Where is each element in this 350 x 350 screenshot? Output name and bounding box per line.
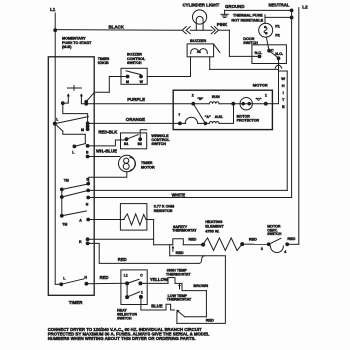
svg-text:L1: L1 xyxy=(124,274,128,278)
wire neutral horizontal xyxy=(86,196,90,200)
svg-text:THERMOSTAT: THERMOSTAT xyxy=(167,298,192,302)
svg-text:I: I xyxy=(283,90,284,95)
svg-text:C: C xyxy=(140,274,143,278)
wire L1 vertical xyxy=(54,13,56,284)
wire hop xyxy=(185,117,197,123)
svg-text:BUZZER: BUZZER xyxy=(127,53,142,57)
svg-text:AUX.: AUX. xyxy=(215,115,224,119)
svg-text:SWITCH: SWITCH xyxy=(267,232,282,236)
svg-text:“A”: “A” xyxy=(205,115,211,119)
svg-text:GROUND: GROUND xyxy=(225,4,245,9)
svg-text:H: H xyxy=(84,275,87,279)
svg-text:3.77 K OHM: 3.77 K OHM xyxy=(154,205,175,209)
svg-text:1: 1 xyxy=(141,290,143,294)
svg-text:RED: RED xyxy=(118,257,127,262)
svg-text:THERMOSTAT: THERMOSTAT xyxy=(172,229,197,233)
svg-text:BLUE: BLUE xyxy=(151,303,163,308)
svg-text:HEAT: HEAT xyxy=(117,308,128,312)
svg-text:SWITCH: SWITCH xyxy=(127,61,142,65)
svg-text:NOT RESETABLE: NOT RESETABLE xyxy=(231,19,263,23)
svg-text:PUSH TO START: PUSH TO START xyxy=(62,41,92,45)
svg-text:M: M xyxy=(126,80,129,84)
timer cam TM-A xyxy=(61,197,63,216)
svg-text:4: 4 xyxy=(284,250,286,254)
svg-text:PURPLE: PURPLE xyxy=(127,97,145,102)
motor protector xyxy=(240,98,252,110)
wire red from timer R xyxy=(88,243,199,263)
svg-text:YELLOW: YELLOW xyxy=(150,277,168,282)
svg-text:SWITCH: SWITCH xyxy=(117,317,132,321)
svg-text:L: L xyxy=(72,150,75,154)
svg-text:H: H xyxy=(282,83,285,88)
connector grommet xyxy=(275,65,278,68)
svg-text:N: N xyxy=(86,203,89,207)
connector chevrons left xyxy=(182,27,186,34)
wire buzzer left to buzzer control switch xyxy=(190,57,192,77)
wire timer motor to timer B xyxy=(89,172,127,184)
svg-text:3: 3 xyxy=(261,247,263,251)
svg-text:1: 1 xyxy=(265,94,267,98)
svg-text:WH.-BLUE: WH.-BLUE xyxy=(96,148,117,153)
svg-text:THERMAL FUSE: THERMAL FUSE xyxy=(233,13,263,17)
wire white branch xyxy=(279,70,288,72)
svg-text:TIMER: TIMER xyxy=(69,300,83,305)
wire L2 vertical xyxy=(298,8,300,245)
svg-text:BLACK: BLACK xyxy=(109,25,125,30)
svg-text:RESISTOR: RESISTOR xyxy=(154,209,173,213)
svg-text:KNOB: KNOB xyxy=(98,61,109,65)
svg-text:4750 W.: 4750 W. xyxy=(205,228,219,233)
svg-text:BROWN: BROWN xyxy=(193,284,208,288)
svg-text:PINK: PINK xyxy=(217,22,228,27)
low temp arrow xyxy=(178,311,185,317)
svg-text:SELECTOR: SELECTOR xyxy=(117,313,137,317)
svg-text:L: L xyxy=(56,118,59,122)
svg-text:2: 2 xyxy=(192,94,194,98)
wire timer A to resistor xyxy=(88,219,124,221)
wire under cylinder light xyxy=(190,29,212,31)
junction safety node xyxy=(169,245,171,256)
svg-text:R: R xyxy=(79,240,82,244)
svg-text:T: T xyxy=(282,97,285,102)
svg-text:HEATING: HEATING xyxy=(205,219,222,224)
svg-text:MOTOR: MOTOR xyxy=(141,165,155,169)
timer box xyxy=(48,57,94,295)
wire timer to buzzer switch M xyxy=(86,92,94,101)
svg-text:CONTROL: CONTROL xyxy=(127,57,146,61)
svg-text:RED: RED xyxy=(287,237,295,241)
svg-text:CONTROL: CONTROL xyxy=(151,138,170,142)
wire black top xyxy=(55,29,182,32)
svg-text:B2: B2 xyxy=(138,142,142,146)
motor start blade 2-A xyxy=(193,104,205,124)
svg-text:DOOR: DOOR xyxy=(243,37,254,41)
motor pin 1 xyxy=(266,103,279,105)
svg-text:W: W xyxy=(140,80,144,84)
timer motor xyxy=(119,155,136,172)
svg-text:BUZZER: BUZZER xyxy=(190,38,206,43)
wire white horizontal xyxy=(86,189,90,193)
junction L1/black xyxy=(53,28,57,32)
svg-text:B: B xyxy=(86,150,89,154)
svg-text:F1: F1 xyxy=(275,24,280,29)
svg-text:RUN: RUN xyxy=(212,95,220,99)
svg-text:TM: TM xyxy=(64,179,69,183)
wire red heater line xyxy=(154,244,173,246)
wire neutral vertical xyxy=(291,10,293,197)
svg-text:NEUTRAL: NEUTRAL xyxy=(269,2,290,7)
svg-text:RED: RED xyxy=(249,238,257,242)
svg-text:“B”: “B” xyxy=(197,97,203,101)
svg-text:“C”: “C” xyxy=(256,98,262,102)
resistor 3.77k xyxy=(120,204,146,231)
svg-text:ELEMENT: ELEMENT xyxy=(205,224,224,229)
svg-text:TIMER: TIMER xyxy=(141,161,153,165)
svg-text:WRINKLE: WRINKLE xyxy=(151,134,169,138)
svg-text:M: M xyxy=(81,128,84,132)
svg-text:MOTOR: MOTOR xyxy=(237,114,251,118)
svg-text:WHITE: WHITE xyxy=(172,192,186,197)
svg-text:ORANGE: ORANGE xyxy=(126,117,145,122)
svg-text:RED: RED xyxy=(176,251,184,255)
wire door switch N.O. down to motor xyxy=(278,59,280,104)
momentary start contact M-B xyxy=(67,87,81,89)
svg-text:L1: L1 xyxy=(50,7,56,12)
svg-text:MOTOR: MOTOR xyxy=(253,83,268,88)
svg-text:N.O.: N.O. xyxy=(275,52,283,56)
wire fuse to door switch xyxy=(266,37,269,51)
wire buzzer right to white node xyxy=(209,57,211,70)
svg-text:RED: RED xyxy=(100,275,109,280)
svg-text:NUMBERS WHEN WRITING ABOUT THI: NUMBERS WHEN WRITING ABOUT THIS DRYER OR… xyxy=(48,336,196,341)
connector chevron right xyxy=(211,27,215,34)
svg-text:7: 7 xyxy=(178,113,180,117)
svg-text:(M-B): (M-B) xyxy=(62,45,72,49)
timer cam lower blade xyxy=(55,124,63,132)
svg-text:E: E xyxy=(282,104,285,109)
svg-text:CYLINDER LIGHT: CYLINDER LIGHT xyxy=(183,3,220,8)
svg-text:L: L xyxy=(63,277,66,281)
svg-text:RED: RED xyxy=(188,237,196,241)
svg-text:SWITCH: SWITCH xyxy=(151,142,166,146)
svg-text:RED-BLK: RED-BLK xyxy=(98,129,117,134)
svg-text:TIMER: TIMER xyxy=(98,57,110,61)
svg-text:TM: TM xyxy=(62,223,67,227)
wire B2 riser xyxy=(140,130,147,140)
svg-text:N.C.: N.C. xyxy=(255,51,263,55)
wire inside timer to M contact xyxy=(63,103,88,123)
svg-text:RED: RED xyxy=(206,318,214,322)
svg-text:B1: B1 xyxy=(124,142,128,146)
svg-text:A: A xyxy=(79,219,82,223)
svg-text:L2: L2 xyxy=(302,4,308,9)
buzzer striker xyxy=(214,44,220,52)
svg-text:F2: F2 xyxy=(275,32,280,37)
svg-text:THERMOSTAT: THERMOSTAT xyxy=(166,272,191,276)
svg-text:MOMENTARY: MOMENTARY xyxy=(62,36,86,40)
svg-text:W: W xyxy=(281,76,285,81)
svg-text:PROTECTOR: PROTECTOR xyxy=(237,118,260,122)
